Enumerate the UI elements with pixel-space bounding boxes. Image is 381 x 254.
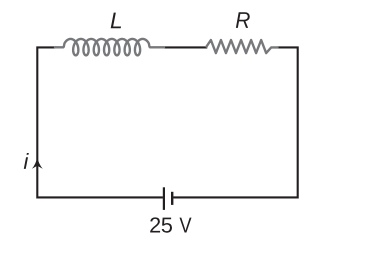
label L xyxy=(111,13,121,29)
wire: top-middle segment between inductor and resistor xyxy=(164,46,207,48)
resistor R (zigzag) xyxy=(206,40,279,53)
current arrow i (on left wire, pointing up) xyxy=(32,157,43,169)
battery 25 V: long plate (positive) xyxy=(163,187,165,210)
label 25 V: digit 2 xyxy=(150,217,160,232)
label 25 V: digit 5 xyxy=(162,218,172,233)
inductor L (coil) xyxy=(55,39,164,55)
label R xyxy=(236,12,250,28)
wire: top-left segment + left side + bottom-left segment xyxy=(37,47,163,197)
wire: top-right segment + right side + bottom-right segment xyxy=(173,47,298,197)
battery 25 V: short plate (negative) xyxy=(171,192,173,205)
label i xyxy=(24,153,29,169)
label 25 V: letter V xyxy=(180,218,192,233)
